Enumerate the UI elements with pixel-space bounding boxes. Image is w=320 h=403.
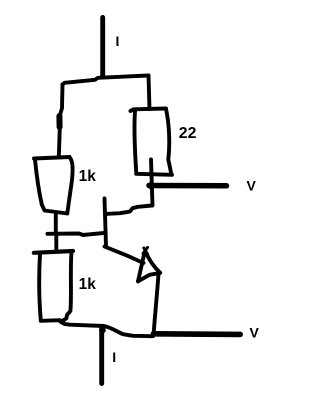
svg-text:V: V <box>247 178 257 194</box>
svg-text:1k: 1k <box>79 276 97 293</box>
svg-text:22: 22 <box>179 125 197 142</box>
svg-text:I: I <box>116 33 120 49</box>
svg-text:V: V <box>250 325 260 341</box>
svg-text:I: I <box>112 349 116 365</box>
svg-text:1k: 1k <box>79 168 97 185</box>
